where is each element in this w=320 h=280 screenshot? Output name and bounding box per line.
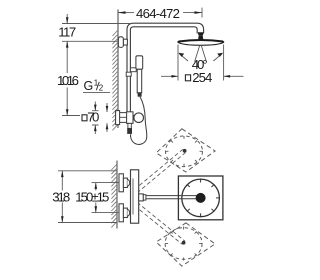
- dim 318 extension top: [58, 170, 117, 172]
- head ball: [198, 36, 203, 39]
- dashed head center dot up: [183, 149, 187, 153]
- dim 254 line+arrow right outside: [224, 75, 244, 78]
- dim 117 top outside arrow: [66, 14, 69, 24]
- mixer lower escutcheon: [119, 204, 123, 222]
- dim 254 extension line right: [223, 45, 225, 81]
- 40deg cone right leg: [201, 46, 206, 62]
- hand shower handle: [137, 69, 142, 93]
- shower arm (top view): [146, 196, 200, 199]
- dim 150+-15 line + arrows: [95, 183, 98, 213]
- dim 150+-15 extension top: [92, 182, 120, 184]
- dim square-70 extension lines: [92, 111, 99, 125]
- shower riser pipe inner: [130, 27, 197, 112]
- upper view: wall line: [117, 10, 119, 129]
- head disc: [178, 40, 224, 45]
- dashed swivel arm down: [134, 202, 184, 244]
- svg-text:117: 117: [58, 25, 76, 40]
- head circle (top view): [182, 179, 220, 217]
- mixer body: [131, 170, 139, 223]
- head circle tick marks: [187, 179, 219, 217]
- mixer upper escutcheon: [119, 174, 123, 192]
- dim 464-472 arrow left: [118, 11, 126, 14]
- hand shower holder: [130, 68, 136, 72]
- mixer lower union: [123, 208, 127, 217]
- valve escutcheon: [116, 111, 120, 125]
- dim 254 glyph square: [185, 75, 190, 81]
- shower riser pipe outer: [127, 23, 204, 112]
- dim 70 arrows right stack: [106, 103, 109, 132]
- dim 117 extension line top (to pipe arm): [62, 23, 131, 25]
- hose: [131, 97, 147, 145]
- svg-text:2: 2: [99, 83, 104, 92]
- valve knob stem: [133, 116, 135, 120]
- head center hub: [196, 193, 206, 203]
- dim 464-472 line right segment: [183, 12, 202, 14]
- dashed head circle up: [166, 136, 203, 167]
- svg-text:1016: 1016: [57, 73, 79, 88]
- mixer upper union: [123, 178, 127, 187]
- 40deg arrow right: [213, 53, 223, 61]
- valve inlet pipe: [120, 113, 127, 123]
- 40deg cone left leg: [195, 46, 200, 62]
- upper view: wall hatching: [112, 30, 118, 130]
- head ball nut: [198, 32, 204, 36]
- hand shower head: [136, 56, 143, 70]
- dim 254 line+arrow left outside: [161, 75, 178, 78]
- svg-text:464-472: 464-472: [136, 6, 180, 21]
- 40deg arrow left: [178, 53, 188, 61]
- dim 117 extension line bottom (to bracket): [62, 40, 119, 42]
- pipe slider: [126, 72, 131, 76]
- valve outlet: [128, 123, 131, 128]
- shower arm flange (top view): [139, 194, 144, 201]
- valve diverter knob: [134, 113, 144, 123]
- svg-text:70: 70: [87, 109, 99, 124]
- hand shower nut: [138, 93, 141, 97]
- shower arm flange nut (top view): [143, 195, 146, 200]
- lower view: wall hatching: [111, 164, 117, 227]
- svg-text:318: 318: [52, 190, 70, 205]
- dim 70 arrows left stack: [94, 102, 97, 135]
- dim 254 extension line left: [177, 45, 179, 81]
- dim 318 extension bottom: [58, 222, 117, 224]
- head square (top view): [178, 176, 223, 220]
- mixer lower nut arc: [127, 209, 129, 216]
- mixer upper nut arc: [127, 179, 129, 186]
- dim 464-472 arrow right: [195, 11, 203, 14]
- dashed head circle down: [165, 228, 202, 260]
- dashed head square down: [156, 223, 215, 266]
- head disc top rim: [179, 40, 223, 41]
- mixer body internal line: [132, 179, 134, 215]
- svg-text:254: 254: [192, 70, 212, 85]
- wall bracket flange: [118, 37, 123, 48]
- dashed head circle down ticks: [165, 227, 202, 261]
- valve outlet nut: [128, 128, 132, 133]
- dashed head center dot down: [182, 241, 186, 245]
- lower view: wall line: [116, 161, 118, 229]
- label G 1/2: [83, 79, 110, 94]
- svg-text:150±15: 150±15: [75, 190, 109, 205]
- wall bracket arm: [123, 39, 127, 45]
- dim 464-472 extension line right: [201, 8, 203, 18]
- shower arm inside head: [179, 196, 199, 199]
- dim 70 glyph square: [82, 115, 87, 121]
- dim 150+-15 extension bottom: [92, 212, 120, 214]
- dim 318 line + arrows: [61, 171, 64, 223]
- dim 464-472 line left segment: [118, 12, 134, 14]
- dim 1016 line (117 bottom arrow up + down to valve): [66, 41, 69, 115]
- dashed head square up: [156, 129, 215, 172]
- dim 1016 extension line bottom (valve centerline): [62, 115, 80, 117]
- dashed swivel arm up: [134, 149, 185, 193]
- dashed head circle up ticks: [166, 136, 203, 167]
- svg-text:G: G: [84, 79, 94, 93]
- valve tee body: [127, 112, 133, 124]
